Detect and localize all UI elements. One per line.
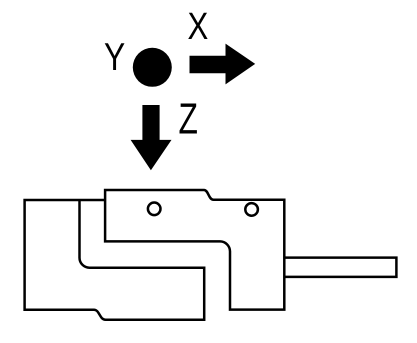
svg-text:Y: Y [104,36,125,79]
svg-text:Z: Z [179,95,198,144]
svg-text:X: X [188,6,209,48]
